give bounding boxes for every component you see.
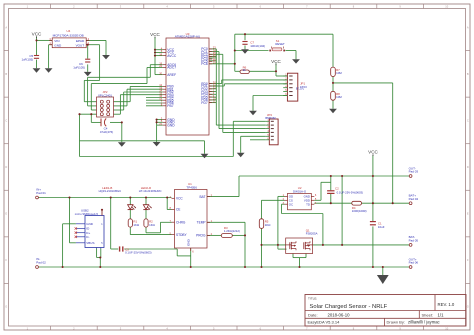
svg-text:U4: U4 [67, 29, 71, 33]
svg-text:1KΩ: 1KΩ [265, 223, 272, 227]
svg-text:A: A [5, 25, 7, 29]
svg-text:G: G [5, 305, 7, 309]
svg-text:Solar Charged Sensor - NRLF: Solar Charged Sensor - NRLF [310, 304, 388, 310]
svg-text:TEMP: TEMP [197, 221, 206, 225]
svg-text:1uF(105): 1uF(105) [73, 66, 85, 70]
svg-text:GND: GND [86, 222, 94, 226]
svg-text:21: 21 [159, 122, 162, 126]
svg-text:Pad 02: Pad 02 [36, 260, 46, 264]
svg-text:B: B [467, 72, 469, 76]
svg-text:ADC7: ADC7 [167, 66, 176, 70]
svg-text:1KΩ: 1KΩ [133, 223, 140, 227]
svg-text:E: E [5, 212, 7, 216]
svg-text:AREF: AREF [167, 73, 176, 77]
svg-text:TITLE:: TITLE: [308, 296, 317, 300]
svg-text:1/1: 1/1 [438, 312, 445, 317]
svg-text:20: 20 [159, 71, 162, 75]
svg-text:0.1UF-25V-5%(0603): 0.1UF-25V-5%(0603) [125, 251, 151, 255]
svg-text:OC: OC [289, 202, 293, 206]
svg-text:TD: TD [306, 202, 310, 206]
svg-text:1000(100R): 1000(100R) [352, 209, 367, 213]
svg-text:D-: D- [86, 235, 89, 239]
svg-text:HT-19-2130SURC: HT-19-2130SURC [139, 189, 162, 193]
svg-text:18: 18 [159, 52, 162, 56]
svg-text:RESET: RESET [275, 42, 285, 46]
svg-text:10uF: 10uF [378, 225, 385, 229]
svg-text:MCP1700A-3302E-DB: MCP1700A-3302E-DB [53, 33, 84, 37]
svg-text:47uF(476): 47uF(476) [100, 130, 113, 134]
svg-text:Pad 01: Pad 01 [36, 191, 46, 195]
svg-text:D: D [5, 165, 7, 169]
svg-text:BMP06C: BMP06C [265, 116, 276, 120]
svg-text:A: A [467, 25, 469, 29]
svg-text:11: 11 [213, 99, 216, 103]
svg-text:VBUS: VBUS [86, 241, 94, 245]
svg-text:VCC: VCC [32, 32, 42, 37]
svg-text:1.2KΩ(1212): 1.2KΩ(1212) [224, 229, 240, 233]
svg-text:CE: CE [176, 208, 180, 212]
svg-text:Pad 06: Pad 06 [409, 261, 419, 265]
svg-text:XPLC2401: XPLC2401 [98, 94, 112, 98]
svg-text:VOUT: VOUT [76, 43, 85, 47]
svg-text:100nF(104): 100nF(104) [250, 44, 265, 48]
svg-text:REV. 1.0: REV. 1.0 [438, 302, 455, 307]
svg-text:TP4056: TP4056 [186, 186, 197, 190]
svg-text:1uF(105): 1uF(105) [21, 58, 33, 62]
svg-text:10M: 10M [336, 95, 342, 99]
svg-text:PC6: PC6 [201, 62, 208, 66]
svg-text:VCC: VCC [150, 32, 160, 37]
svg-text:STDBY: STDBY [176, 233, 188, 237]
svg-text:C: C [5, 118, 7, 122]
svg-text:EPAD: EPAD [76, 39, 85, 43]
svg-text:EasyEDA V5.3.14: EasyEDA V5.3.14 [308, 320, 341, 325]
svg-text:22: 22 [159, 64, 162, 68]
svg-text:C: C [467, 118, 469, 122]
svg-text:0.1UF-25V-5%(0603): 0.1UF-25V-5%(0603) [337, 191, 363, 195]
svg-text:Drawn By:: Drawn By: [387, 320, 405, 325]
svg-text:B: B [5, 72, 7, 76]
svg-text:VCC: VCC [271, 59, 281, 64]
svg-text:FS8205A: FS8205A [306, 232, 318, 236]
svg-text:BT_LVL: BT_LVL [296, 88, 305, 90]
svg-text:10M: 10M [336, 71, 342, 75]
svg-text:GND: GND [186, 238, 190, 246]
svg-text:ATMEGA328P-AU: ATMEGA328P-AU [175, 35, 200, 39]
svg-text:VIN: VIN [54, 39, 59, 43]
svg-text:2018-06-10: 2018-06-10 [328, 312, 351, 317]
svg-text:micro SMDtype4-5: micro SMDtype4-5 [75, 212, 99, 216]
svg-text:DW01A-G: DW01A-G [293, 189, 307, 193]
svg-text:Sheet:: Sheet: [422, 312, 434, 317]
svg-text:GND: GND [54, 43, 62, 47]
svg-text:PD7: PD7 [201, 101, 208, 105]
svg-text:CHRG: CHRG [176, 220, 186, 224]
svg-text:PROG: PROG [196, 234, 206, 238]
svg-text:VCC: VCC [368, 150, 378, 155]
svg-text:1KΩ: 1KΩ [149, 223, 156, 227]
svg-text:PB7: PB7 [167, 104, 173, 108]
svg-text:Date:: Date: [308, 312, 318, 317]
svg-text:VCC: VCC [176, 197, 183, 201]
svg-text:G: G [467, 305, 469, 309]
svg-text:BAT: BAT [200, 195, 206, 199]
svg-text:Pad 05: Pad 05 [409, 239, 419, 243]
svg-text:GND: GND [167, 123, 175, 127]
svg-text:HQ19-2101UBGC: HQ19-2101UBGC [99, 189, 122, 193]
svg-text:D: D [467, 165, 469, 169]
svg-text:zilliawilli / jaymac: zilliawilli / jaymac [408, 320, 440, 325]
svg-text:29: 29 [213, 61, 216, 65]
svg-text:Pad 04: Pad 04 [409, 197, 419, 201]
svg-text:Pad 03: Pad 03 [409, 170, 419, 174]
svg-text:AVCC: AVCC [167, 54, 177, 58]
svg-text:E: E [467, 212, 469, 216]
